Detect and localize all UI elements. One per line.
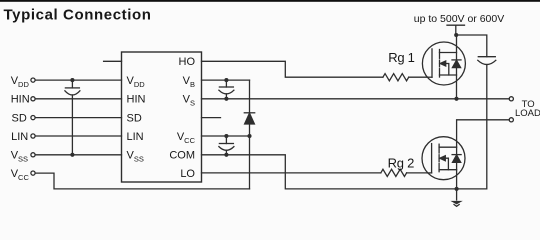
bootstrap diode D1 cathode bar bbox=[244, 112, 254, 114]
wire VCC terminal under U1 to diode anode column bbox=[35, 173, 249, 189]
capacitor C1 (VDD-VSS) stub top bbox=[71, 80, 73, 88]
capacitor C3 stub bottom bbox=[225, 150, 227, 155]
svg-text:LIN: LIN bbox=[127, 131, 144, 143]
junction dot HV bus node bbox=[454, 33, 458, 37]
wire VSS terminal to U1 bbox=[35, 154, 121, 156]
capacitor C4 curved plate bbox=[478, 60, 496, 64]
junction dot VB/C2 bbox=[224, 78, 228, 82]
terminal VDD bbox=[31, 78, 35, 82]
junction dot VDD/C1 bbox=[70, 78, 74, 82]
terminal VCC bbox=[31, 171, 35, 175]
bootstrap diode D1 triangle bbox=[245, 113, 255, 124]
capacitor C4 bus flat plate bbox=[478, 56, 495, 58]
svg-text:Rg 1: Rg 1 bbox=[388, 50, 414, 65]
capacitor C2 flat plate bbox=[219, 86, 233, 88]
junction dot VCC/C3 bbox=[224, 134, 228, 138]
terminal LOAD bbox=[509, 118, 513, 122]
capacitor C1 flat plate bbox=[65, 87, 79, 89]
capacitor C2 stub bottom bbox=[225, 94, 227, 99]
capacitor C2 bootstrap (VB-VS) stub top bbox=[225, 80, 227, 87]
svg-text:LO: LO bbox=[180, 168, 195, 180]
wire HO from U1 with step down bbox=[202, 61, 383, 77]
wire LIN terminal to U1 bbox=[35, 135, 121, 137]
wire Rg1 to Q1 gate bbox=[409, 76, 428, 78]
capacitor C3 curved plate bbox=[219, 147, 234, 151]
terminal HIN bbox=[31, 97, 35, 101]
terminal SD bbox=[31, 116, 35, 120]
junction dot VS midpoint node bbox=[454, 97, 458, 101]
wire bus branch to C4 bbox=[456, 35, 487, 57]
top border bar bbox=[0, 0, 540, 2]
terminal VSS bbox=[31, 153, 35, 157]
wire Rg2 to Q2 gate bbox=[407, 172, 428, 174]
wire LO from U1 to Rg2 bbox=[202, 172, 381, 174]
svg-text:SD: SD bbox=[127, 113, 142, 125]
wire VS from U1 to load midpoint and TO terminal bbox=[202, 98, 510, 100]
MOSFET Q2 bbox=[422, 137, 465, 180]
MOSFET Q1 bbox=[422, 42, 465, 85]
junction dot Q2 source / ground node bbox=[455, 187, 459, 191]
HV bus bar bbox=[447, 24, 465, 26]
svg-text:HIN: HIN bbox=[11, 94, 30, 106]
wire diode cathode column (VB down) bbox=[249, 80, 251, 113]
IC U1 body bbox=[122, 52, 202, 182]
terminal LIN bbox=[31, 134, 35, 138]
svg-text:Rg 2: Rg 2 bbox=[388, 156, 414, 171]
svg-text:HO: HO bbox=[179, 56, 196, 68]
resistor Rg1 zigzag bbox=[383, 74, 409, 81]
stub wire left of U1 (HO row) bbox=[104, 60, 122, 62]
junction dot VCC/diode anode bbox=[247, 134, 251, 138]
wire bus node down through Q1 to midpoint bbox=[456, 35, 458, 99]
svg-text:LOAD: LOAD bbox=[515, 108, 540, 119]
junction dot VS/C2 bbox=[224, 97, 228, 101]
capacitor C1 curved plate bbox=[65, 91, 80, 95]
capacitor C3 flat plate bbox=[219, 143, 233, 145]
wire HIN terminal to U1 bbox=[35, 98, 121, 100]
svg-text:SD: SD bbox=[12, 113, 27, 125]
svg-text:COM: COM bbox=[169, 150, 195, 162]
svg-text:Typical Connection: Typical Connection bbox=[4, 6, 152, 23]
svg-text:LIN: LIN bbox=[11, 131, 28, 143]
wire VCC from U1 to diode column bbox=[202, 135, 250, 137]
junction dot VSS/C1 bbox=[70, 153, 74, 157]
resistor Rg2 zigzag bbox=[381, 169, 407, 176]
wire VDD terminal to U1 bbox=[35, 79, 121, 81]
wire VB from U1 to diode cathode column bbox=[202, 79, 250, 81]
terminal TO bbox=[509, 97, 513, 101]
capacitor C3 (VCC-COM) stub top bbox=[225, 136, 227, 144]
wire load branch from Q2 drain to LOAD terminal bbox=[457, 120, 510, 189]
wire diode anode column down to VCC row and under-route bbox=[249, 124, 251, 189]
svg-text:up to 500V or 600V: up to 500V or 600V bbox=[414, 13, 505, 25]
capacitor C1 stub bottom bbox=[71, 95, 73, 155]
stub wire right of U1 (SD row) bbox=[202, 117, 221, 119]
junction dot COM/C3 bbox=[224, 153, 228, 157]
svg-text:HIN: HIN bbox=[127, 94, 146, 106]
wire COM from U1 with step down to Q2 source bbox=[202, 155, 457, 189]
wire SD terminal to U1 bbox=[35, 117, 121, 119]
wire C4 bottom down to ground node bbox=[457, 65, 487, 189]
ground symbol bbox=[450, 189, 462, 206]
capacitor C2 curved plate bbox=[219, 90, 234, 94]
wire bus bar down to node bbox=[455, 25, 457, 35]
